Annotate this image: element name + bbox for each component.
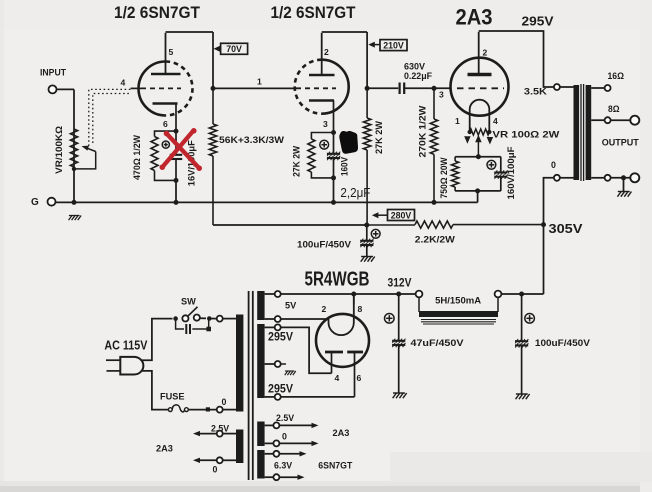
svg-text:4: 4 <box>121 78 126 88</box>
node V2 plate <box>365 86 370 91</box>
shielded lead dotted outer <box>89 89 131 146</box>
plug top wire <box>141 319 173 361</box>
input terminal <box>49 85 57 93</box>
voltage box 70V <box>214 43 248 54</box>
node wiper to line <box>72 167 76 171</box>
tube V2 envelope <box>295 60 349 114</box>
wire V2 plate to cap <box>367 87 398 89</box>
wire V3 grid lead <box>434 87 451 89</box>
2.2K/2W label <box>415 234 455 245</box>
V3 pin 1 label <box>455 116 460 126</box>
wire V2 cathode to bus <box>333 178 335 203</box>
47uF/450V label <box>411 337 465 348</box>
node cathode network bottom <box>475 188 480 193</box>
OT 0 tap <box>591 175 630 181</box>
svg-text:4: 4 <box>335 373 340 383</box>
wire HV bottom to pin6 <box>281 396 355 398</box>
svg-text:56K+3.3K/3W: 56K+3.3K/3W <box>219 134 284 145</box>
resistor 470Ω 1/2W <box>151 131 176 180</box>
node 0 tap ground <box>621 175 626 180</box>
output terminal 0 <box>630 173 639 182</box>
wire 0 tap to ground <box>623 178 625 191</box>
V2 pin 3 label <box>323 119 328 129</box>
svg-text:47uF/450V: 47uF/450V <box>411 337 465 348</box>
V4 pin 4 label <box>335 373 340 383</box>
svg-text:160V/100μF: 160V/100μF <box>506 146 516 200</box>
16V/100uF label <box>186 140 196 187</box>
wire switch to node <box>200 317 206 319</box>
svg-text:2.5V: 2.5V <box>211 423 229 433</box>
svg-text:100uF/450V: 100uF/450V <box>297 238 352 249</box>
HV top tap 295V <box>265 324 281 330</box>
svg-text:270K 1/2W: 270K 1/2W <box>417 105 427 158</box>
wire 5V bottom to pin2 <box>281 318 329 320</box>
plug bottom wire <box>141 371 169 410</box>
svg-text:2A3: 2A3 <box>456 4 493 29</box>
V2 cathode <box>309 101 334 133</box>
HV bottom tap <box>265 394 281 400</box>
svg-text:0: 0 <box>213 464 218 474</box>
V1 pin 4 label <box>121 78 126 88</box>
0 label primary <box>222 397 227 407</box>
switch SW contacts <box>182 307 200 322</box>
svg-text:750Ω 20W: 750Ω 20W <box>439 157 449 199</box>
wire input to grid line <box>57 88 75 90</box>
V1 pin 5 label <box>169 47 174 57</box>
SW label <box>181 297 196 307</box>
capacitor 100uF/450V output <box>515 294 528 394</box>
svg-text:5H/150mA: 5H/150mA <box>435 294 481 305</box>
OT primary bottom terminal <box>554 175 560 181</box>
node V1 cathode bottom <box>174 178 179 183</box>
OT 16Ω tap <box>591 85 610 91</box>
ground bus <box>56 201 478 203</box>
5V label <box>285 301 297 311</box>
choke winding 5H/150mA <box>419 297 498 324</box>
svg-text:2.2K/2W: 2.2K/2W <box>415 234 455 245</box>
100uF/450V output label <box>535 337 591 348</box>
svg-text:2: 2 <box>483 48 488 58</box>
svg-text:VR 100Ω 2W: VR 100Ω 2W <box>492 129 560 139</box>
V3 filament <box>470 100 490 132</box>
svg-text:1/2 6SN7GT: 1/2 6SN7GT <box>271 4 356 22</box>
470Ω 1/2W label <box>132 134 142 180</box>
svg-text:2: 2 <box>324 47 329 57</box>
270K 1/2W label <box>417 105 427 158</box>
VR/100KΩ value label <box>54 126 64 174</box>
8Ω label <box>608 104 620 114</box>
svg-text:AC 115V: AC 115V <box>104 338 148 352</box>
svg-text:4: 4 <box>493 116 498 126</box>
node filament pin4 <box>487 130 491 134</box>
47uF plus mark <box>385 314 395 324</box>
ground at 280V cap <box>361 257 375 262</box>
node V2 cathode bottom <box>331 175 336 180</box>
C2 plus mark <box>320 140 329 149</box>
primary bottom stub <box>223 409 236 411</box>
node 47uF junction <box>396 292 401 297</box>
V1 pin 6 label <box>163 119 168 129</box>
295V bottom label <box>268 384 293 396</box>
V3 pin 3 label <box>439 90 444 100</box>
630V label <box>404 61 426 71</box>
svg-text:5V: 5V <box>285 301 297 311</box>
2.5V right label <box>276 413 294 423</box>
wire pin8 <box>353 294 355 305</box>
OT core <box>581 84 584 181</box>
100uF/450V label at 280V <box>297 238 352 249</box>
PT primary winding <box>236 315 243 412</box>
5V top tap <box>265 291 281 297</box>
svg-text:312V: 312V <box>388 278 412 290</box>
choke left terminal <box>416 291 423 298</box>
svg-text:3: 3 <box>323 119 328 129</box>
svg-text:100uF/450V: 100uF/450V <box>535 337 591 348</box>
V4 pin 2 label <box>322 304 327 314</box>
3.5K label <box>524 86 548 96</box>
node V1 cathode top <box>174 129 179 134</box>
svg-text:SW: SW <box>181 297 196 307</box>
PT 5V winding <box>257 291 264 320</box>
G terminal label <box>31 197 39 208</box>
VR 100Ω 2W label <box>492 129 560 139</box>
0.22uF label <box>404 71 432 81</box>
V4 filament <box>329 295 354 336</box>
OT primary top stub <box>560 86 574 88</box>
svg-text:305V: 305V <box>549 221 583 236</box>
V2 pin 1 label <box>257 77 262 87</box>
output terminal 8Ω <box>630 116 639 125</box>
svg-text:1: 1 <box>455 116 460 126</box>
0 left label <box>213 464 218 474</box>
capacitor 0.22uF 630V <box>400 83 405 95</box>
wire V2 plate top rail <box>322 31 367 33</box>
2A3 cap plus mark <box>487 160 496 169</box>
svg-text:6SN7GT: 6SN7GT <box>318 460 352 470</box>
OT primary top terminal <box>554 84 560 90</box>
HV center tap <box>265 361 286 367</box>
wire cap to V3 grid node <box>404 87 434 89</box>
svg-text:0: 0 <box>551 160 556 170</box>
fuse element <box>168 405 188 412</box>
resistor 750Ω 20W <box>452 157 459 191</box>
svg-text:630V: 630V <box>404 61 426 71</box>
wire primary bottom to 305V line <box>544 178 554 225</box>
6SN7GT label <box>318 460 352 470</box>
2.5V left bottom tap <box>193 457 236 463</box>
wire network to ground bus <box>477 191 479 203</box>
svg-text:3: 3 <box>439 90 444 100</box>
G terminal <box>48 198 56 206</box>
resistor 2.2K/2W <box>367 221 544 228</box>
AC plug prongs <box>106 360 120 371</box>
capacitor 47uF/450V <box>392 294 405 393</box>
title V3 2A3 <box>456 4 493 29</box>
svg-text:VR/100KΩ: VR/100KΩ <box>54 126 64 174</box>
OT primary winding <box>574 85 580 180</box>
2,2uF added label <box>340 185 370 200</box>
svg-text:2A3: 2A3 <box>156 444 173 454</box>
svg-text:1/2 6SN7GT: 1/2 6SN7GT <box>114 4 200 22</box>
PT core <box>249 291 253 480</box>
ground symbol at input bus <box>69 216 82 221</box>
svg-text:8Ω: 8Ω <box>608 104 620 114</box>
corner input wire <box>0 0 1 1</box>
160V/100uF label 2A3 <box>506 146 516 200</box>
wire 280V bus <box>213 224 367 226</box>
wire to primary terminal <box>209 318 216 320</box>
27K 2W plate label <box>374 120 384 154</box>
svg-text:0.22μF: 0.22μF <box>404 71 432 81</box>
wire plate rail down to node <box>212 32 214 88</box>
voltage box 210V <box>368 40 407 51</box>
wire V3 plate rail 295V <box>479 31 554 87</box>
V1 cathode <box>153 104 178 132</box>
pot wiper arrow <box>74 146 96 169</box>
56K+3.3K/3W label <box>219 134 284 145</box>
wire 5V top rail 312V <box>281 293 416 295</box>
AC plug body <box>120 357 143 375</box>
svg-text:2,2μF: 2,2μF <box>340 185 370 200</box>
node 270K to bus <box>432 200 437 205</box>
shielded lead dotted inner <box>93 94 131 144</box>
wire choke to 305V corner <box>501 293 543 295</box>
svg-text:6: 6 <box>163 119 168 129</box>
svg-text:0: 0 <box>282 431 287 441</box>
node 305V <box>541 222 546 227</box>
svg-text:6.3V: 6.3V <box>274 460 292 470</box>
hum pot end arrow left <box>464 136 471 144</box>
svg-text:27K 2W: 27K 2W <box>291 145 301 177</box>
title V2 1/2 6SN7GT <box>271 4 356 22</box>
hum pot VR 100Ω 2W body <box>470 129 490 135</box>
0 right label <box>282 431 287 441</box>
V3 plate <box>468 32 492 75</box>
PT 2.5V right winding <box>257 422 264 447</box>
2.5V left top tap <box>193 431 236 437</box>
wire cathode to ground bus <box>175 180 177 202</box>
svg-text:FUSE: FUSE <box>160 392 185 402</box>
305V label <box>549 221 583 236</box>
V4 pin 8 label <box>358 304 363 314</box>
wire V2 rail down <box>366 32 368 88</box>
wire fuse to terminal <box>188 407 216 411</box>
16Ω label <box>608 71 625 81</box>
svg-text:2.5V: 2.5V <box>276 413 294 423</box>
wire V1 plate to V2 grid <box>213 87 295 89</box>
capacitor 160V/100uF 2A3 <box>494 157 507 191</box>
svg-text:210V: 210V <box>383 40 404 50</box>
svg-text:INPUT: INPUT <box>40 68 66 78</box>
svg-text:295V: 295V <box>268 384 293 396</box>
PT 2.5V left winding <box>236 430 243 464</box>
svg-text:295V: 295V <box>268 331 293 343</box>
PT HV winding <box>257 324 264 398</box>
2.5V right bottom tap <box>265 440 319 446</box>
V4 plate right <box>347 352 363 397</box>
node 280V cap junction <box>364 223 369 228</box>
choke right terminal <box>495 291 502 298</box>
6.3V label <box>274 460 292 470</box>
svg-text:160V: 160V <box>339 157 349 176</box>
resistor 27K 2W cathode <box>308 133 334 178</box>
title V1 1/2 6SN7GT <box>114 4 200 22</box>
node cathode/bus <box>174 200 179 205</box>
node V2 cathode <box>331 130 336 135</box>
svg-text:6: 6 <box>357 373 362 383</box>
svg-text:280V: 280V <box>391 210 412 220</box>
wire input down to ground bus <box>73 89 75 202</box>
node switch right <box>207 316 212 321</box>
svg-text:1: 1 <box>257 77 262 87</box>
black marker blob <box>339 131 358 154</box>
wire 305V down to choke <box>543 225 545 294</box>
295V label top <box>522 14 555 28</box>
6.3V top tap <box>265 451 307 457</box>
capacitor C2 160V <box>327 133 340 178</box>
0 label primary bottom <box>551 160 556 170</box>
FUSE label <box>160 392 185 402</box>
capacitor 100uF/450V at 280V <box>360 225 373 256</box>
node 100uF junction <box>519 292 524 297</box>
5V bottom tap <box>265 316 281 322</box>
OT 8Ω tap <box>591 117 630 123</box>
ground at output <box>617 192 631 197</box>
6.3V bottom tap <box>265 474 305 480</box>
resistor 270K 1/2W <box>430 88 437 202</box>
V2 grid <box>296 87 336 89</box>
295V top label <box>268 331 293 343</box>
red X deletion mark <box>160 128 203 171</box>
node pin8 rail <box>351 292 356 297</box>
node V2 cathode/bus <box>331 200 336 205</box>
100uF output plus mark <box>525 314 535 324</box>
primary top terminal <box>217 316 223 322</box>
2A3 left label <box>156 444 173 454</box>
voltage box 280V <box>372 210 415 221</box>
312V label <box>388 278 412 290</box>
V4 plate left <box>325 352 343 373</box>
svg-text:5: 5 <box>169 47 174 57</box>
node wiper to cathode rail <box>476 154 481 159</box>
2A3 right label <box>333 428 350 438</box>
V3 grid <box>457 87 504 89</box>
OT secondary winding <box>586 85 592 180</box>
750Ω 20W label <box>439 157 449 199</box>
svg-text:16Ω: 16Ω <box>608 71 625 81</box>
tube V3 envelope <box>451 58 509 116</box>
V3 pin 4 label <box>493 116 498 126</box>
svg-text:70V: 70V <box>226 44 242 54</box>
V4 pin 6 label <box>357 373 362 383</box>
resistor 27K 2W plate load <box>363 88 370 225</box>
svg-text:OUTPUT: OUTPUT <box>602 137 639 147</box>
switch bypass capacitor <box>176 319 211 334</box>
primary top stub <box>223 318 236 320</box>
wire V1 plate top rail <box>166 31 214 33</box>
ground at 47uF <box>393 393 407 398</box>
resistor 56K+3.3K/3W body <box>209 88 216 225</box>
hum pot wiper arrow <box>475 135 482 157</box>
cathode network top rail <box>455 156 501 158</box>
V1 grid <box>131 87 182 89</box>
svg-text:2: 2 <box>322 304 327 314</box>
2.5V right top tap <box>265 422 319 428</box>
100uF plus mark <box>371 229 380 238</box>
tube V1 envelope <box>139 62 193 116</box>
V1 plate <box>151 33 181 74</box>
V2 pin 2 label <box>324 47 329 57</box>
hum pot end arrow right <box>487 137 494 145</box>
OUTPUT label <box>602 137 639 147</box>
node V3 grid <box>432 86 437 91</box>
OT primary bottom stub <box>560 177 574 179</box>
ground at center tap <box>285 371 296 375</box>
V2 plate <box>309 33 335 75</box>
wire HV top to pin4 <box>281 327 332 373</box>
node bus/input branch <box>72 200 77 205</box>
svg-text:295V: 295V <box>522 14 555 28</box>
svg-text:0: 0 <box>222 397 227 407</box>
AC 115V label <box>104 338 148 352</box>
node filament pin1 <box>468 130 472 134</box>
svg-text:8: 8 <box>358 304 363 314</box>
svg-text:3.5K: 3.5K <box>524 86 548 96</box>
5H/150mA label <box>435 294 481 305</box>
title 5R4WGB <box>305 269 370 291</box>
svg-text:G: G <box>31 197 39 208</box>
2.5V left label <box>211 423 229 433</box>
svg-text:2A3: 2A3 <box>333 428 350 438</box>
primary bottom terminal <box>217 407 223 413</box>
V3 pin 2 label <box>483 48 488 58</box>
rectifier V4 5R4WGB envelope <box>316 314 369 367</box>
PT 6.3V winding <box>257 450 264 479</box>
ground at 100uF output <box>516 394 530 399</box>
INPUT label <box>40 68 66 78</box>
potentiometer VR/100K body <box>70 129 77 167</box>
160V/100uF label C2 <box>339 157 349 176</box>
svg-text:470Ω 1/2W: 470Ω 1/2W <box>132 134 142 180</box>
node switch left <box>173 316 178 321</box>
svg-text:5R4WGB: 5R4WGB <box>305 269 370 291</box>
capacitor C1 16V/100uF <box>170 131 182 180</box>
node V1 plate / 70V <box>211 86 216 91</box>
svg-text:27K 2W: 27K 2W <box>374 120 384 154</box>
cathode network bottom rail <box>455 190 501 192</box>
27K 2W cathode label <box>291 145 301 177</box>
C1 plus mark <box>162 141 169 148</box>
